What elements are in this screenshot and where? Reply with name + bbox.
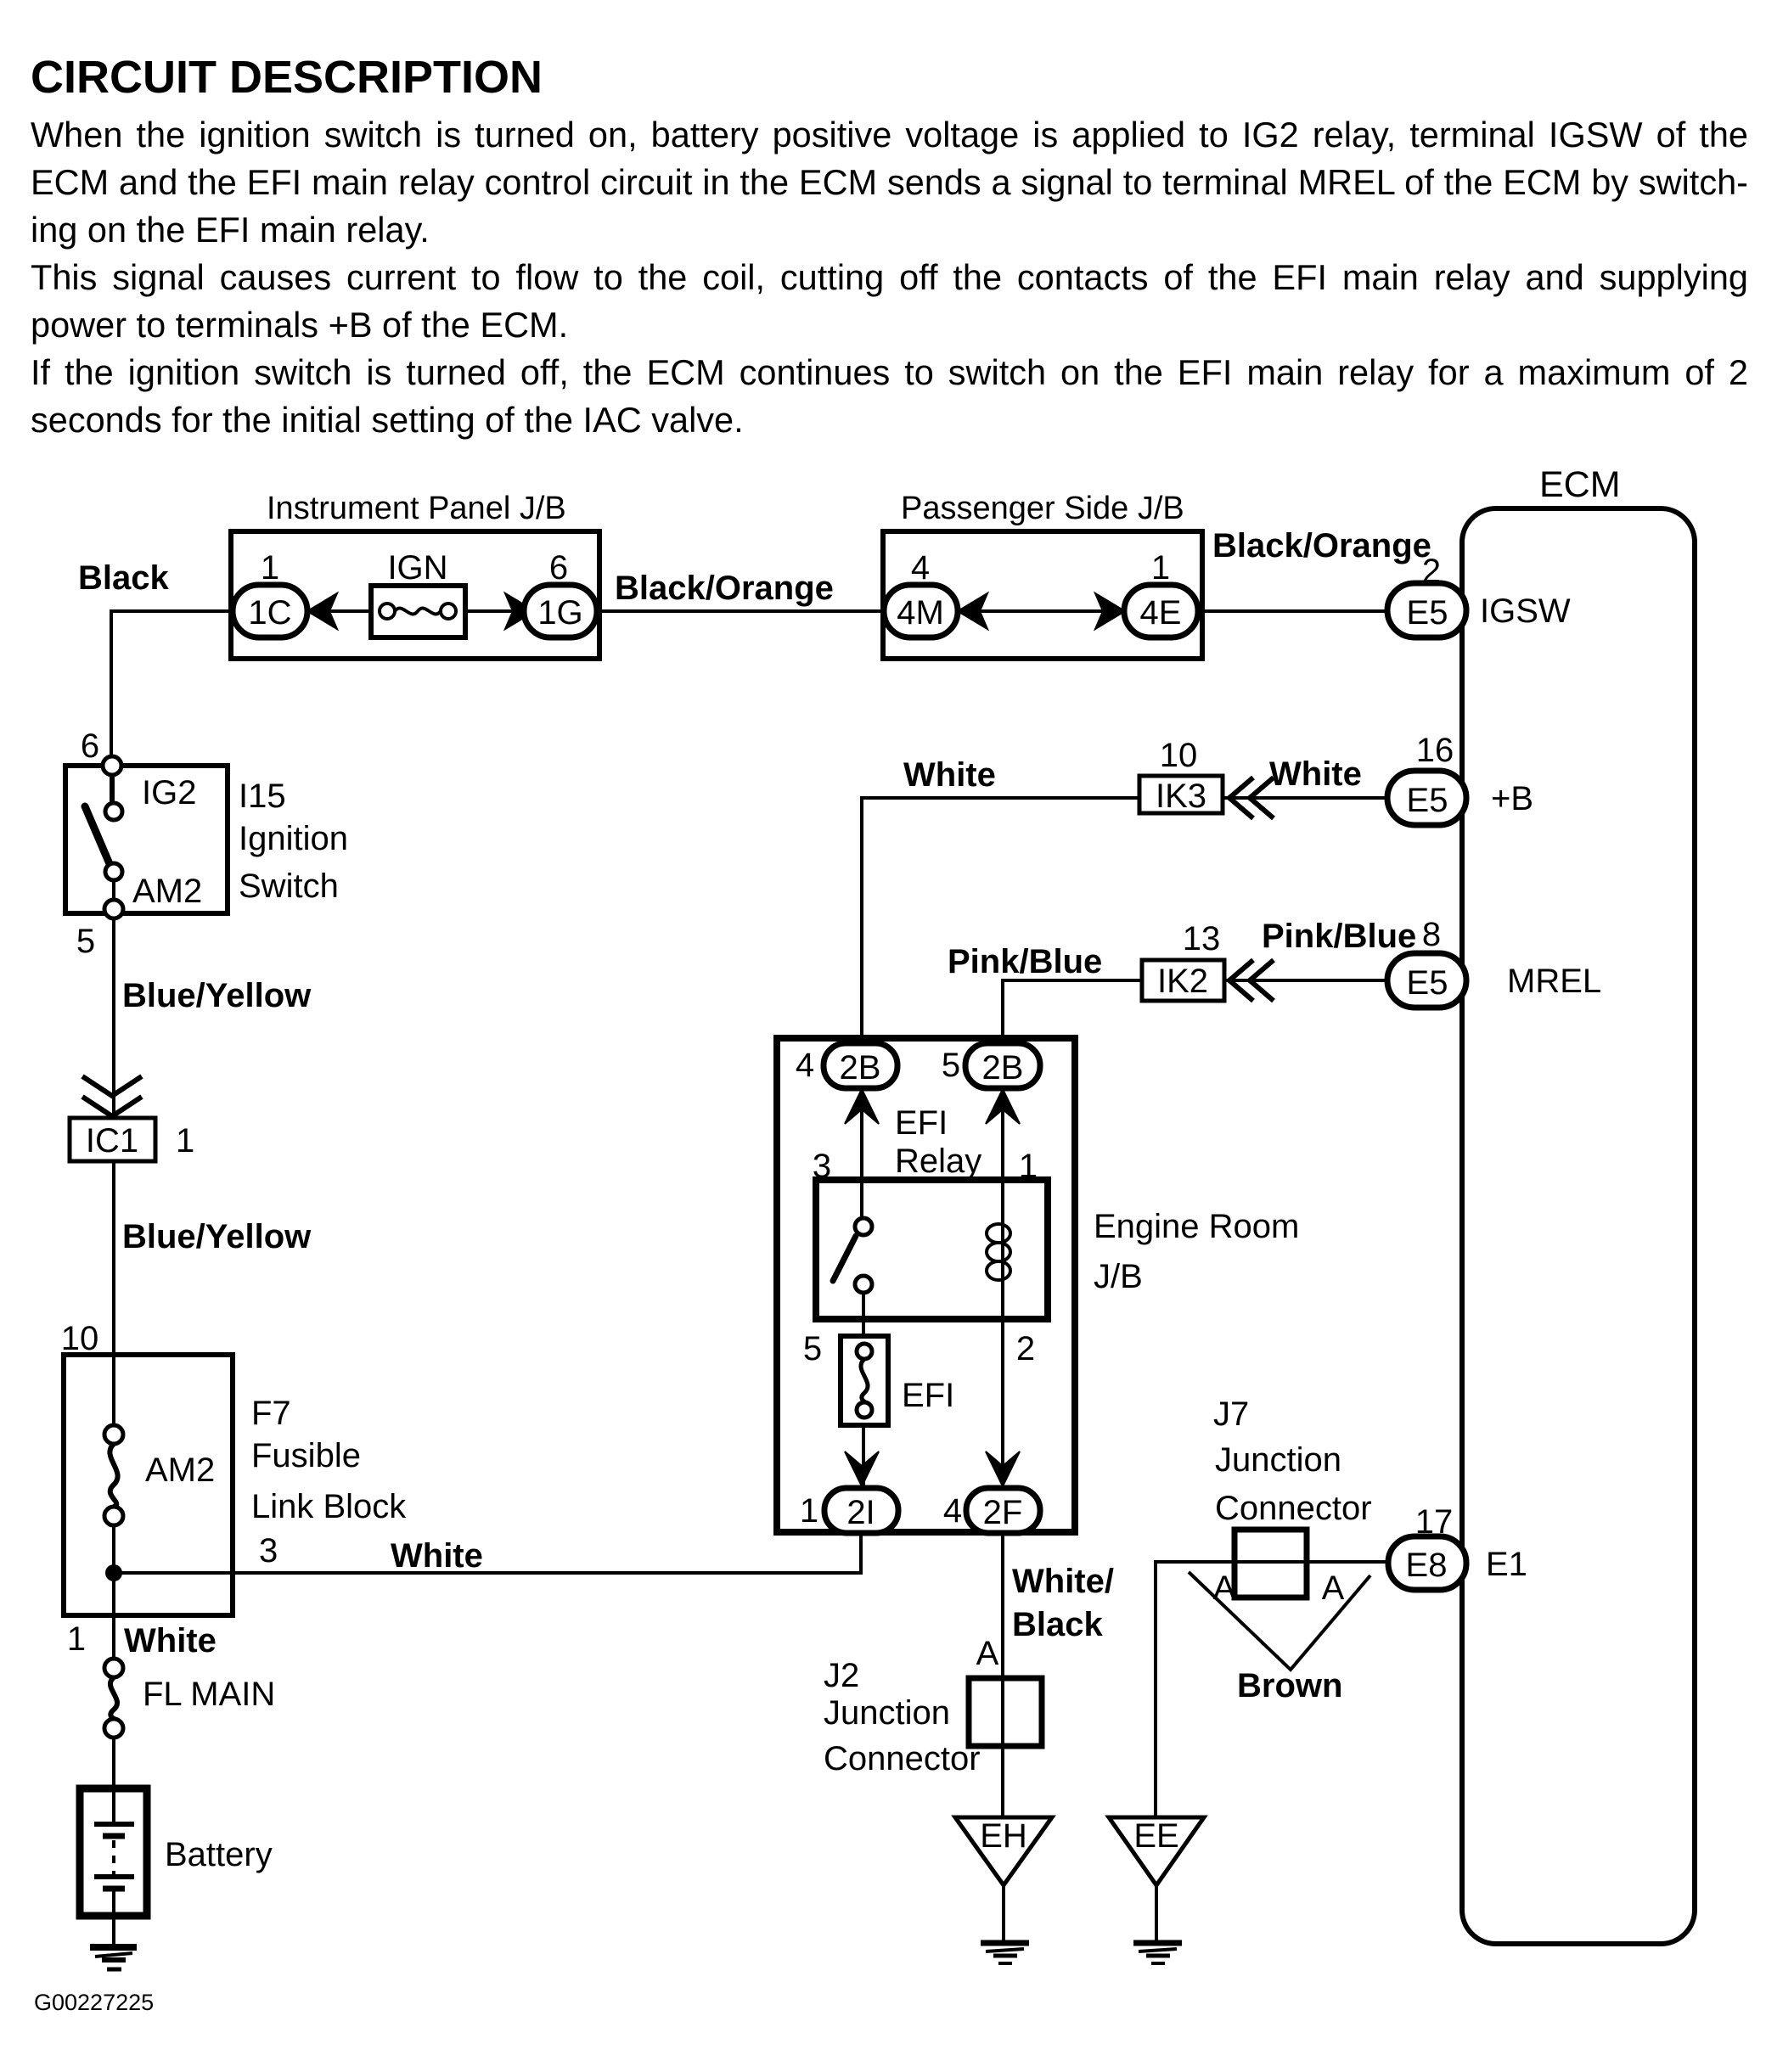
connector terminal 4E <box>1124 585 1198 637</box>
junction block: Passenger Side J/B <box>883 491 1202 659</box>
svg-text:A: A <box>1322 1569 1345 1607</box>
svg-text:Instrument Panel J/B: Instrument Panel J/B <box>267 491 566 526</box>
relay coil <box>987 1224 1010 1280</box>
svg-text:I15: I15 <box>239 778 286 815</box>
V pointer under J7 <box>1189 1572 1370 1670</box>
relay switch contacts <box>833 1218 872 1293</box>
svg-text:FL MAIN: FL MAIN <box>143 1676 275 1713</box>
svg-text:Junction: Junction <box>824 1694 950 1732</box>
wire from FL MAIN to battery <box>112 1738 115 1824</box>
svg-text:1G: 1G <box>537 594 582 632</box>
svg-text:ECM: ECM <box>1539 464 1621 505</box>
arrowhead down (right, above 2F) <box>986 1452 1020 1486</box>
ECM terminal E5 pin 2 IGSW <box>1387 583 1571 637</box>
junction block: Instrument Panel J/B <box>231 491 599 659</box>
svg-text:1: 1 <box>261 549 279 587</box>
label I15 Ignition Switch <box>239 778 348 905</box>
svg-text:Switch: Switch <box>239 868 339 905</box>
svg-text:4: 4 <box>796 1047 814 1084</box>
svg-text:Connector: Connector <box>1215 1490 1372 1527</box>
svg-text:Black: Black <box>78 559 169 597</box>
svg-text:EFI: EFI <box>902 1377 954 1414</box>
ground symbol EH <box>981 1943 1029 1963</box>
svg-text:Junction: Junction <box>1215 1441 1341 1479</box>
wire from 2B left down to relay contact <box>860 1088 863 1220</box>
pin 1 of IC1 <box>176 1122 194 1160</box>
svg-text:J2: J2 <box>824 1657 859 1694</box>
svg-text:J/B: J/B <box>1094 1258 1143 1295</box>
connector terminal 2B (right) <box>965 1043 1040 1088</box>
label wire color White (left of IK3) <box>903 756 996 794</box>
label wire color Blue/Yellow (upper) <box>122 977 312 1014</box>
svg-text:2F: 2F <box>983 1494 1023 1531</box>
svg-text:1: 1 <box>67 1620 86 1658</box>
junction block: Engine Room J/B outline <box>777 1038 1075 1532</box>
svg-text:AM2: AM2 <box>145 1452 215 1489</box>
ground triangle EH <box>955 1817 1052 1943</box>
svg-text:EH: EH <box>980 1817 1027 1855</box>
svg-text:2B: 2B <box>982 1049 1024 1087</box>
label wire color Pink/Blue (left of IK2) <box>948 943 1102 980</box>
svg-text:F7: F7 <box>251 1395 291 1432</box>
fuse EFI (in Engine Room J/B) <box>841 1336 954 1425</box>
pin 4 of connector 4M <box>911 549 930 587</box>
ground symbol below battery <box>90 1947 137 1969</box>
svg-text:Black/Orange: Black/Orange <box>615 570 834 607</box>
label J7 Junction Connector <box>1213 1395 1372 1527</box>
connector terminal 2I <box>824 1488 898 1533</box>
svg-text:5: 5 <box>942 1047 960 1084</box>
pin 5 of connector 2B (right) <box>942 1047 960 1084</box>
svg-text:10: 10 <box>1160 737 1198 774</box>
label wire color Black/Orange (at ECM) <box>1212 527 1441 590</box>
svg-text:White: White <box>903 756 996 794</box>
label J2 Junction Connector <box>824 1657 981 1777</box>
svg-text:1: 1 <box>800 1492 818 1530</box>
svg-text:AM2: AM2 <box>132 873 202 910</box>
arrowhead up (right, under 2B) <box>986 1089 1020 1124</box>
pin 3 of F7 <box>259 1532 278 1569</box>
label wire color Brown <box>1237 1667 1342 1704</box>
svg-text:IC1: IC1 <box>86 1122 138 1160</box>
pin 6 of connector 1G <box>549 549 568 587</box>
svg-text:5: 5 <box>803 1330 822 1367</box>
wire White: F7 pin3 junction to Engine Room J/B pin 1 (2I) <box>114 1533 861 1573</box>
svg-text:EFI: EFI <box>895 1104 948 1142</box>
svg-text:16: 16 <box>1416 732 1454 769</box>
wire from 2B right down through coil <box>1001 1088 1004 1488</box>
pin 2 below relay <box>1016 1330 1035 1367</box>
svg-text:Connector: Connector <box>824 1740 981 1777</box>
junction dot at F7 pin 3 <box>105 1564 122 1581</box>
svg-text:Brown: Brown <box>1237 1667 1342 1704</box>
svg-text:White: White <box>391 1537 483 1575</box>
pin 1 of connector 1C <box>261 549 279 587</box>
svg-text:4: 4 <box>943 1492 962 1530</box>
EFI relay box <box>816 1180 1048 1319</box>
svg-text:2I: 2I <box>846 1494 875 1531</box>
connector terminal 2B (left) <box>824 1043 897 1088</box>
wire Blue/Yellow from ignition switch down to IC1 <box>112 918 115 1427</box>
svg-text:IGSW: IGSW <box>1480 592 1571 630</box>
wire Pink/Blue from ECM MREL (E5) to Engine Room J/B 2B <box>1003 980 1386 1065</box>
svg-text:Pink/Blue: Pink/Blue <box>948 943 1102 980</box>
svg-text:Ignition: Ignition <box>239 820 348 857</box>
junction connector IK3 <box>1139 776 1223 815</box>
ECM module outline <box>1462 464 1695 1944</box>
label Engine Room J/B <box>1094 1208 1299 1295</box>
wire Black: battery feed from 1C down to ignition switch <box>111 611 1386 805</box>
label wire color White/Black <box>1012 1563 1114 1643</box>
connector crossing chevrons above IC1 <box>82 1076 142 1116</box>
svg-text:IG2: IG2 <box>142 774 196 811</box>
svg-text:5: 5 <box>76 923 95 960</box>
arrowhead down (left, above 2I) <box>845 1452 879 1486</box>
svg-text:E5: E5 <box>1407 782 1448 819</box>
svg-text:J7: J7 <box>1213 1395 1249 1433</box>
svg-text:White: White <box>124 1622 217 1659</box>
svg-text:Passenger Side J/B: Passenger Side J/B <box>901 491 1184 526</box>
svg-text:Pink/Blue: Pink/Blue <box>1262 918 1416 955</box>
ECM terminal E8 pin 17 E1 <box>1388 1536 1527 1590</box>
svg-text:Relay: Relay <box>895 1143 981 1180</box>
svg-text:1: 1 <box>176 1122 194 1160</box>
connector terminal 1C <box>233 585 307 637</box>
svg-text:IGN: IGN <box>387 549 447 587</box>
connector terminal 4M <box>884 585 958 637</box>
svg-text:Black: Black <box>1012 1606 1103 1643</box>
connector crossing chevrons right of IK3 <box>1229 778 1274 818</box>
pin 1 of connector 2I <box>800 1492 818 1530</box>
svg-text:Battery: Battery <box>165 1836 273 1873</box>
junction connector IC1 <box>70 1118 155 1161</box>
svg-text:A: A <box>1213 1569 1236 1607</box>
svg-text:G00227225: G00227225 <box>34 1990 154 2015</box>
svg-text:4M: 4M <box>897 594 944 632</box>
label wire color White (right of IK3) <box>1269 755 1362 793</box>
pin 10 of IK3 <box>1160 737 1198 774</box>
arrowhead pointing right toward 1G <box>505 593 535 629</box>
connector terminal 2F <box>966 1488 1040 1533</box>
label wire color White (to Engine Room J/B) <box>391 1537 483 1575</box>
fusible link AM2 inside F7 <box>104 1425 215 1525</box>
label wire color Black/Orange (between J/Bs) <box>615 570 834 607</box>
svg-text:1C: 1C <box>248 594 291 632</box>
pin 17 label at E8 <box>1415 1503 1454 1541</box>
svg-text:E5: E5 <box>1407 964 1448 1002</box>
wire White/Black from 2F down to EH ground <box>1001 1533 1004 1817</box>
label wire color Pink/Blue (right of IK2) <box>1262 916 1441 955</box>
pin 16 label at E5 <box>1416 732 1454 769</box>
svg-text:E8: E8 <box>1406 1547 1448 1584</box>
node 5: ignition switch bottom pin <box>76 923 95 960</box>
fusible link block F7 outline <box>64 1355 233 1615</box>
battery <box>80 1788 273 1946</box>
svg-text:6: 6 <box>81 727 99 765</box>
svg-text:Link Block: Link Block <box>251 1488 407 1525</box>
svg-text:Blue/Yellow: Blue/Yellow <box>122 1218 312 1255</box>
circuit description heading <box>31 51 543 104</box>
figure number G00227225 <box>34 1990 154 2015</box>
junction connector J2 <box>969 1678 1042 1746</box>
svg-text:IK3: IK3 <box>1156 778 1206 815</box>
pin 1 of EFI relay <box>1019 1148 1038 1185</box>
pin 3 of EFI relay <box>813 1148 831 1185</box>
svg-text:MREL: MREL <box>1507 963 1601 1000</box>
svg-text:13: 13 <box>1183 920 1221 957</box>
ignition switch I15 <box>65 756 228 918</box>
svg-text:2B: 2B <box>840 1049 881 1087</box>
svg-text:10: 10 <box>61 1320 99 1357</box>
junction connector J7 <box>1235 1530 1307 1598</box>
wire White from ECM +B (E5) to Engine Room J/B 2B <box>862 798 1386 1065</box>
svg-text:+B: +B <box>1491 780 1533 817</box>
label wire color Black <box>78 559 169 597</box>
pin 4 of connector 2B (left) <box>796 1047 814 1084</box>
wire inside F7 from AM2 fuse to junction <box>112 1525 115 1660</box>
svg-text:Blue/Yellow: Blue/Yellow <box>122 977 312 1014</box>
label F7 Fusible Link Block <box>251 1395 407 1525</box>
connector terminal 1G <box>524 585 597 637</box>
svg-text:White: White <box>1269 755 1362 793</box>
svg-text:8: 8 <box>1422 916 1441 953</box>
pin 10 of fusible link block F7 <box>61 1320 99 1357</box>
ECM terminal E5 pin 16 +B <box>1387 771 1533 825</box>
svg-text:6: 6 <box>549 549 568 587</box>
wire from relay contact to EFI fuse <box>862 1293 865 1488</box>
svg-text:Engine Room: Engine Room <box>1094 1208 1299 1245</box>
connector crossing chevrons right of IK2 <box>1229 960 1274 1001</box>
arrowhead up (left, under 2B) <box>845 1089 879 1124</box>
ground triangle EE <box>1109 1817 1204 1943</box>
pin 4 of connector 2F <box>943 1492 962 1530</box>
pin 1 of F7 <box>67 1620 86 1658</box>
pin 1 of connector 4E <box>1151 549 1170 587</box>
node 6: ignition switch top pin <box>81 727 99 765</box>
svg-text:E1: E1 <box>1486 1546 1527 1583</box>
label EFI Relay <box>895 1104 981 1180</box>
fusible link FL MAIN <box>104 1659 275 1738</box>
ground symbol EE <box>1133 1943 1182 1963</box>
label wire color Blue/Yellow (lower) <box>122 1218 312 1255</box>
svg-text:E5: E5 <box>1407 594 1448 632</box>
svg-text:1: 1 <box>1151 549 1170 587</box>
svg-text:A: A <box>976 1635 999 1672</box>
svg-text:2: 2 <box>1016 1330 1035 1367</box>
svg-text:EE: EE <box>1133 1817 1178 1855</box>
arrowhead pointing left toward 1C <box>307 593 337 629</box>
svg-text:White/: White/ <box>1012 1563 1114 1600</box>
label wire color White (to battery) <box>124 1622 217 1659</box>
svg-text:3: 3 <box>259 1532 278 1569</box>
junction connector IK2 <box>1142 960 1224 1001</box>
svg-text:Black/Orange: Black/Orange <box>1212 527 1431 564</box>
pin 5 below relay <box>803 1330 822 1367</box>
svg-text:IK2: IK2 <box>1157 963 1208 1000</box>
ECM terminal E5 pin 8 MREL <box>1387 953 1601 1008</box>
wire Brown from ECM E1 (E8) through J7 to EE ground <box>1156 1562 1388 1817</box>
circuit description body text <box>31 111 1748 444</box>
arrowhead pointing left toward 4M <box>958 593 987 629</box>
svg-text:4: 4 <box>911 549 930 587</box>
node A labels at J7 <box>1213 1569 1345 1607</box>
svg-text:Fusible: Fusible <box>251 1437 361 1474</box>
svg-text:4E: 4E <box>1140 594 1182 632</box>
arrowhead pointing right toward 4E <box>1095 593 1125 629</box>
node A label above J2 <box>976 1635 999 1672</box>
fuse IGN (in Instrument Panel J/B) <box>371 549 465 637</box>
pin 13 of IK2 <box>1183 920 1221 957</box>
